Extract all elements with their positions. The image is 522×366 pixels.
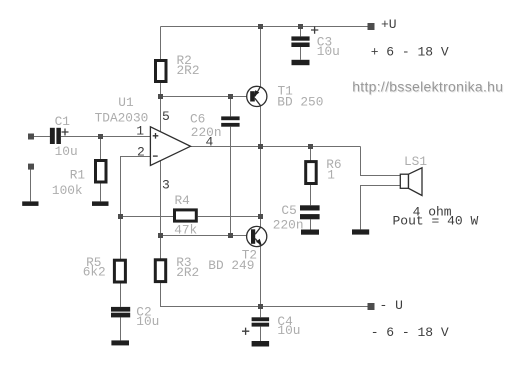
node junction C1 R1 bbox=[98, 134, 103, 139]
capacitor C3 plus mark bbox=[311, 26, 318, 33]
svg-text:10u: 10u bbox=[317, 44, 340, 59]
op-amp plus input mark bbox=[153, 133, 159, 139]
ground input bbox=[22, 201, 38, 206]
terminal input ground bbox=[28, 164, 34, 170]
svg-text:3: 3 bbox=[162, 177, 170, 192]
wire R1 bottom to ground bbox=[100, 183, 102, 202]
svg-text:Pout = 40 W: Pout = 40 W bbox=[393, 214, 479, 229]
svg-text:C5: C5 bbox=[281, 203, 296, 218]
resistor R2 bbox=[156, 61, 167, 82]
svg-text:4: 4 bbox=[206, 134, 214, 149]
wire R6 top bbox=[310, 147, 312, 162]
svg-text:47k: 47k bbox=[174, 222, 197, 237]
svg-text:U1: U1 bbox=[118, 95, 134, 110]
svg-text:10u: 10u bbox=[277, 323, 300, 338]
ground R1 bbox=[92, 201, 109, 206]
wire output node down to T2 collector bbox=[260, 147, 262, 227]
wire opamp pin 2 bbox=[121, 157, 151, 217]
transistor T1 emitter diagonal with arrow bbox=[255, 87, 261, 97]
node junction output R6 bbox=[308, 144, 313, 149]
transistor T1 circle bbox=[247, 86, 267, 106]
wire C3 bottom to ground bbox=[300, 47, 302, 60]
svg-text:BD 250: BD 250 bbox=[277, 95, 323, 110]
svg-text:C1: C1 bbox=[55, 114, 71, 129]
capacitor C3 plates bbox=[291, 36, 309, 40]
svg-text:2R2: 2R2 bbox=[177, 63, 200, 78]
wire C6 bottom down to T2 base rail bbox=[230, 127, 232, 236]
wire R5 top bbox=[120, 217, 122, 261]
terminal -U bbox=[368, 303, 375, 310]
resistor R4 bbox=[175, 210, 197, 221]
svg-text:2R2: 2R2 bbox=[176, 265, 199, 280]
wire T1 emitter to output rail bbox=[260, 106, 262, 147]
wire R5 to C2 bbox=[120, 283, 122, 307]
svg-text:100k: 100k bbox=[52, 183, 83, 198]
wire output rail bbox=[191, 146, 361, 148]
capacitor C4 plates bbox=[252, 317, 270, 321]
svg-text:6k2: 6k2 bbox=[83, 265, 106, 280]
wire C6 top bbox=[230, 97, 232, 117]
svg-text:http://bsselektronika.hu: http://bsselektronika.hu bbox=[352, 79, 503, 95]
wire T1 base rail bbox=[161, 96, 251, 98]
resistor R3 bbox=[155, 260, 165, 282]
capacitor C1 plates bbox=[50, 128, 55, 144]
svg-text:1: 1 bbox=[136, 124, 144, 139]
svg-text:220n: 220n bbox=[273, 217, 304, 232]
node junction output T1 T2 bbox=[258, 144, 263, 149]
svg-text:- U: - U bbox=[380, 298, 403, 313]
op-amp U1 triangle bbox=[150, 127, 190, 166]
wire R6 to C5 bbox=[310, 185, 312, 206]
node junction C6 top bbox=[228, 94, 233, 99]
wire T2 emitter bbox=[260, 246, 262, 306]
ground C5 bbox=[301, 230, 319, 235]
capacitor C2 plates bbox=[111, 307, 130, 312]
transistor T2 circle bbox=[247, 226, 267, 246]
transistor T1 collector diagonal bbox=[255, 98, 261, 106]
wire R4 right bbox=[198, 216, 261, 218]
wire T2 base rail bbox=[161, 235, 252, 237]
wire C4 bottom to ground bbox=[260, 327, 262, 341]
transistor T2 emitter diagonal with arrow bbox=[255, 239, 261, 246]
resistor R1 bbox=[96, 161, 107, 183]
wire C5 to ground bbox=[310, 219, 312, 229]
svg-text:2: 2 bbox=[137, 145, 145, 160]
node junction R2 pin5 bbox=[158, 94, 163, 99]
svg-text:R1: R1 bbox=[70, 168, 86, 183]
wire C1 to opamp pin 1 bbox=[61, 136, 150, 138]
wire R2 top bbox=[160, 27, 162, 60]
node junction C3 on +U rail bbox=[298, 24, 303, 29]
capacitor C5 plates bbox=[300, 205, 320, 210]
wire input ground terminal stem bbox=[30, 170, 32, 202]
capacitor C1 plus mark bbox=[62, 129, 69, 136]
wire C3 top bbox=[300, 27, 302, 37]
wire C4 top bbox=[260, 307, 262, 318]
resistor R6 bbox=[306, 162, 317, 184]
transistor T1 base bar bbox=[250, 91, 255, 101]
resistor R5 bbox=[114, 260, 125, 282]
wire opamp pin 3 down to R3 bbox=[160, 161, 162, 260]
capacitor C4 plus mark bbox=[242, 328, 249, 335]
node junction C6 T2 base rail bbox=[228, 233, 233, 238]
wire speaker lower to ground bbox=[361, 186, 401, 230]
node junction T1 collector on +U rail bbox=[258, 24, 263, 29]
op-amp minus input mark bbox=[153, 155, 158, 157]
wire R4 left bbox=[121, 216, 175, 218]
wire +U rail bbox=[161, 26, 372, 28]
svg-text:5: 5 bbox=[162, 109, 170, 124]
svg-text:10u: 10u bbox=[136, 314, 159, 329]
svg-text:+U: +U bbox=[381, 17, 397, 32]
wire R2 bottom to opamp pin 5 bbox=[160, 83, 162, 133]
terminal input bbox=[28, 134, 34, 140]
ground speaker bbox=[352, 229, 369, 234]
wire input to C1 bbox=[33, 136, 50, 138]
svg-text:1: 1 bbox=[327, 168, 335, 183]
wire R1 top bbox=[100, 137, 102, 161]
svg-text:LS1: LS1 bbox=[404, 154, 427, 169]
wire T1 collector bbox=[260, 27, 262, 88]
node junction R4 left R5 bbox=[118, 214, 123, 219]
ground C3 bbox=[292, 60, 310, 65]
wire C2 to ground bbox=[120, 317, 122, 340]
node junction R4 right T2 collector bbox=[258, 214, 263, 219]
transistor T2 collector diagonal bbox=[255, 227, 261, 234]
wire R3 bottom and -U rail bbox=[161, 283, 372, 307]
capacitor C6 plates bbox=[221, 116, 239, 120]
ground C4 bbox=[252, 341, 270, 347]
svg-text:+ 6 - 18 V: + 6 - 18 V bbox=[371, 45, 449, 60]
svg-text:- 6 - 18 V: - 6 - 18 V bbox=[371, 325, 449, 340]
wire speaker upper bbox=[361, 147, 401, 176]
ground C2 bbox=[111, 340, 129, 345]
transistor T2 base bar bbox=[251, 229, 255, 244]
svg-text:BD 249: BD 249 bbox=[208, 258, 254, 273]
svg-text:10u: 10u bbox=[55, 144, 78, 159]
node junction pin3 R3 base rail bbox=[158, 233, 163, 238]
speaker LS1 bbox=[400, 168, 422, 196]
node junction T2 emitter C4 bbox=[258, 304, 263, 309]
terminal +U bbox=[368, 23, 375, 30]
svg-text:R4: R4 bbox=[175, 193, 191, 208]
